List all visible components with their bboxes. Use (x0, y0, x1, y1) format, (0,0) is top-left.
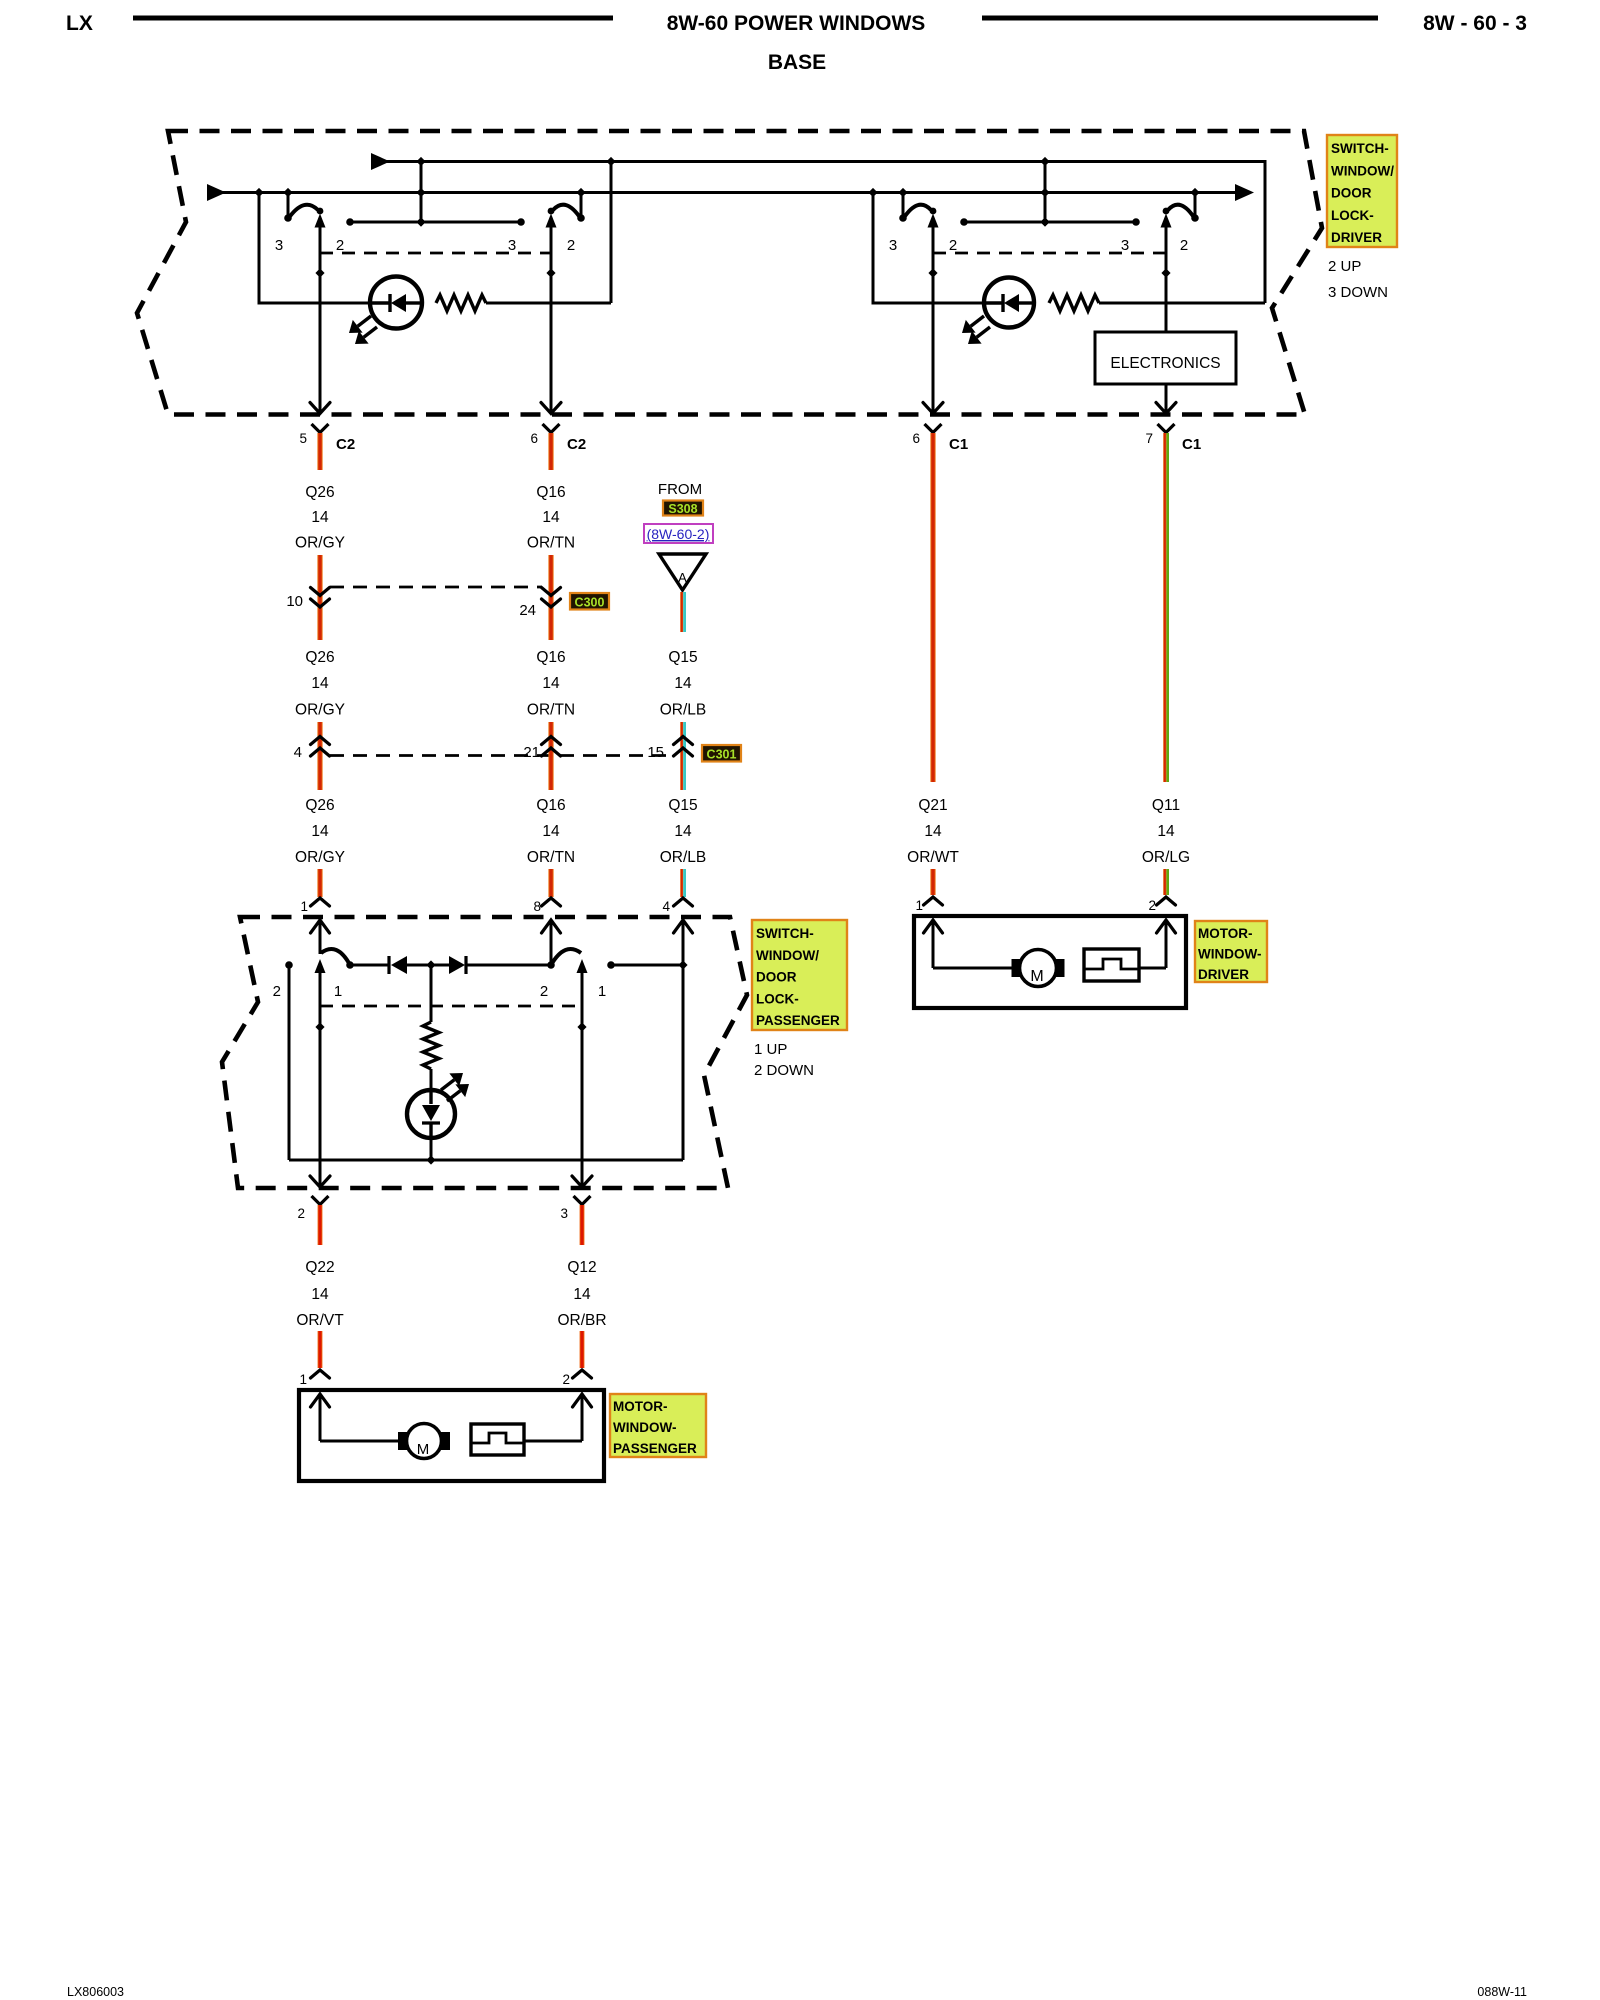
svg-text:A: A (678, 570, 687, 585)
svg-text:OR/TN: OR/TN (527, 535, 575, 552)
svg-text:3: 3 (560, 1206, 568, 1221)
mechanical link (dashed) left pair (320, 252, 551, 255)
pin 1 entry arrow (924, 920, 943, 933)
pin exit arrows at bottom of passenger switch box (310, 1176, 330, 1187)
svg-text:10: 10 (286, 593, 303, 610)
wire Q16 below C300 (548, 612, 553, 640)
svg-text:OR/LG: OR/LG (1142, 849, 1190, 866)
wire: blade down through box to pin 2 (319, 971, 322, 1186)
svg-text:LX806003: LX806003 (67, 1985, 124, 1999)
svg-text:Q26: Q26 (305, 484, 334, 501)
svg-text:3: 3 (508, 237, 516, 254)
motor M2 (passenger window) (407, 1424, 442, 1459)
svg-text:2 DOWN: 2 DOWN (754, 1062, 814, 1079)
component label: SWITCH-WINDOW/DOOR LOCK-DRIVER (1327, 135, 1397, 247)
svg-text:DOOR: DOOR (756, 970, 797, 985)
svg-text:2: 2 (562, 1372, 570, 1387)
wire Q21 into driver motor pin 1 (930, 869, 935, 895)
svg-text:14: 14 (311, 675, 329, 692)
diode D1 (points left) (387, 956, 390, 974)
svg-text:OR/LB: OR/LB (660, 702, 707, 719)
pin 8 entry arrow (542, 920, 561, 933)
svg-text:14: 14 (542, 509, 560, 526)
svg-text:WINDOW-: WINDOW- (613, 1420, 676, 1435)
svg-text:14: 14 (542, 675, 560, 692)
svg-text:M: M (417, 1441, 430, 1458)
svg-text:MOTOR-: MOTOR- (1198, 926, 1253, 941)
switch blade arc x=551 (553, 205, 581, 219)
svg-text:3: 3 (1121, 237, 1129, 254)
svg-text:14: 14 (674, 675, 692, 692)
switch pole: pivot stub x=1195 (1194, 193, 1197, 217)
component label: SWITCH-WINDOW/DOOR LOCK-PASSENGER (752, 920, 847, 1030)
wire Q15 into passenger switch pin 4 (680, 869, 683, 897)
wire Q15 through C301 (680, 722, 683, 790)
header rule left (133, 16, 613, 21)
ELECTRONICS block U1 (1095, 332, 1236, 384)
svg-text:24: 24 (519, 602, 536, 619)
connector label C300 (570, 593, 609, 610)
svg-text:1: 1 (300, 899, 308, 914)
wire Q15 from splice A (680, 592, 683, 632)
wire Q16 segment below C2-6 (548, 433, 553, 470)
pin 1 entry arrow and blade (311, 920, 330, 933)
svg-text:WINDOW/: WINDOW/ (1331, 163, 1394, 178)
svg-text:8: 8 (533, 899, 541, 914)
wire: resistor to x=611 vertical (486, 302, 611, 305)
svg-text:6: 6 (912, 431, 920, 446)
connector pin 3 (passenger switch) (574, 1196, 591, 1205)
mechanical link (dashed) passenger switch (320, 1005, 582, 1008)
svg-text:ELECTRONICS: ELECTRONICS (1110, 355, 1220, 372)
header rule right (982, 16, 1378, 21)
svg-text:2 UP: 2 UP (1328, 258, 1361, 275)
wire Q16 through C300 (548, 555, 553, 612)
svg-text:14: 14 (311, 1286, 329, 1303)
connector C1 pin 6 (925, 424, 942, 433)
wire contact 1 to diode D1 (350, 964, 388, 967)
LED emission arrows (447, 1091, 460, 1101)
switch pole: pivot stub x=903 (902, 193, 905, 217)
switch S3a blade arc (321, 949, 350, 965)
svg-text:2: 2 (297, 1206, 305, 1221)
in-line connector C301 (dashed mate line) (330, 754, 674, 757)
wire: vertical from upper bus down to lamp line (x=611) (610, 162, 613, 304)
wire LED to bottom bus (430, 1138, 433, 1160)
svg-text:088W-11: 088W-11 (1477, 1985, 1527, 1999)
svg-text:Q16: Q16 (536, 797, 565, 814)
svg-text:OR/GY: OR/GY (295, 849, 345, 866)
switch blade arrow x=1166 (1161, 214, 1172, 228)
switch blade arrow x=933 (928, 214, 939, 228)
splice symbol A (from S308) (659, 554, 706, 590)
wire: vertical tie upper bus to contact bar (right cell) (1044, 162, 1047, 223)
contact bar (right switch pair) (964, 221, 1136, 224)
resistor R3 (423, 1022, 439, 1069)
circuit breaker CB2 (471, 1424, 524, 1455)
LED emission arrows (971, 316, 984, 326)
wire: resistor to right corner vertical (1099, 302, 1265, 305)
in-line connector C300 (dashed mate line) (330, 586, 542, 589)
svg-text:8W - 60 - 3: 8W - 60 - 3 (1423, 12, 1527, 35)
wire Q22 into passenger motor pin 1 (318, 1331, 323, 1368)
pin 4 entry arrow and vertical (674, 920, 693, 933)
svg-text:2: 2 (1180, 237, 1188, 254)
wire: vertical tie upper bus to contact bar (left cell) (420, 162, 423, 223)
svg-text:BASE: BASE (768, 51, 826, 74)
svg-text:PASSENGER: PASSENGER (756, 1013, 840, 1028)
svg-text:DRIVER: DRIVER (1198, 967, 1249, 982)
svg-text:1 UP: 1 UP (754, 1041, 787, 1058)
svg-text:S308: S308 (668, 502, 697, 516)
wire to motor (933, 967, 1013, 970)
svg-text:LOCK-: LOCK- (756, 991, 799, 1006)
svg-text:LX: LX (66, 12, 93, 35)
junction node (diode/LED tap) (426, 960, 435, 969)
wire diode D2 to switch S3b pivot (466, 964, 551, 967)
connector label C301 (702, 745, 741, 762)
svg-text:Q26: Q26 (305, 649, 334, 666)
svg-text:M: M (1030, 968, 1043, 985)
C301 pin 4 chevrons (311, 737, 330, 745)
svg-text:14: 14 (1157, 823, 1175, 840)
svg-text:(8W-60-2): (8W-60-2) (647, 526, 710, 542)
svg-text:15: 15 (647, 744, 664, 761)
svg-text:C2: C2 (336, 436, 355, 453)
LED emission arrows (358, 316, 371, 326)
svg-text:2: 2 (1148, 898, 1156, 913)
svg-text:Q12: Q12 (567, 1259, 596, 1276)
svg-text:C300: C300 (575, 596, 605, 610)
wire Q22 below switch (318, 1205, 323, 1245)
switch S3b blade arc (551, 949, 581, 965)
svg-text:2: 2 (949, 237, 957, 254)
svg-text:2: 2 (567, 237, 575, 254)
svg-text:PASSENGER: PASSENGER (613, 1441, 697, 1456)
svg-text:SWITCH-: SWITCH- (1331, 141, 1389, 156)
C300 pin 10 chevrons (311, 588, 330, 596)
svg-text:Q16: Q16 (536, 649, 565, 666)
svg-text:OR/WT: OR/WT (907, 849, 959, 866)
wire Q12 below switch (580, 1205, 585, 1245)
wire: right drop to lamp line (x=873) (873, 193, 984, 304)
svg-text:Q26: Q26 (305, 797, 334, 814)
svg-text:DOOR: DOOR (1331, 186, 1372, 201)
svg-text:OR/TN: OR/TN (527, 849, 575, 866)
component label: MOTOR-WINDOW-PASSENGER (610, 1394, 706, 1457)
wire: blade vertical to pin 5 (319, 226, 322, 413)
wire: blade down through box to pin 3 (581, 971, 584, 1186)
resistor R2 (1049, 295, 1099, 311)
C300 pin 24 chevrons (542, 588, 561, 596)
connector pin 2 (passenger switch) (312, 1196, 329, 1205)
svg-text:C2: C2 (567, 436, 586, 453)
component box: MOTOR-WINDOW-PASSENGER (299, 1390, 604, 1481)
svg-text:1: 1 (334, 983, 342, 1000)
connector C1 pin 7 (1158, 424, 1175, 433)
LED lamp (driver switch illumination) (370, 277, 422, 329)
circuit breaker CB1 (1084, 949, 1139, 981)
wire Q16 into passenger switch pin 8 (548, 869, 553, 897)
wire: blade vertical to pin 6 (550, 226, 553, 413)
svg-text:Q15: Q15 (668, 797, 697, 814)
svg-text:1: 1 (598, 983, 606, 1000)
svg-text:5: 5 (299, 431, 307, 446)
svg-text:1: 1 (915, 898, 923, 913)
switch pole: pivot stub x=288 (287, 193, 290, 217)
junction dots below links (315, 268, 324, 277)
pin 2 entry arrow (1157, 920, 1176, 933)
component label: MOTOR-WINDOW-DRIVER (1195, 921, 1267, 982)
junction dots on lower bus (254, 188, 263, 197)
svg-text:C301: C301 (707, 748, 737, 762)
junction dots column x=1045 (1040, 157, 1049, 166)
LED lamp (right cell illumination) (984, 278, 1034, 328)
wire: blade vertical into electronics and to C1 pin 7 (1165, 226, 1168, 332)
svg-text:C1: C1 (1182, 436, 1201, 453)
resistor R1 (436, 295, 486, 311)
switch pole: pivot stub x=581 (580, 193, 583, 217)
wire Q11 segment below C1-7 (1163, 433, 1166, 782)
diode D2 (points right) (449, 956, 465, 974)
LED lamp (passenger switch illumination) (407, 1090, 455, 1138)
svg-text:OR/BR: OR/BR (557, 1312, 606, 1329)
switch blade arrow x=320 (315, 214, 326, 228)
wire Q26 through C300 (317, 555, 322, 612)
svg-text:14: 14 (311, 823, 329, 840)
svg-text:OR/VT: OR/VT (296, 1312, 344, 1329)
svg-text:3 DOWN: 3 DOWN (1328, 284, 1388, 301)
svg-text:Q15: Q15 (668, 649, 697, 666)
motor M1 (driver window) (1020, 950, 1057, 987)
svg-text:LOCK-: LOCK- (1331, 208, 1374, 223)
pin exit arrows at bottom of driver switch box (310, 403, 330, 414)
wire breaker to pin 2 (1139, 967, 1166, 970)
bottom bus of passenger switch (289, 1159, 683, 1162)
svg-text:WINDOW-: WINDOW- (1198, 947, 1261, 962)
contact 1 (right) (607, 961, 615, 969)
svg-text:Q22: Q22 (305, 1259, 334, 1276)
wire to motor (320, 1440, 399, 1443)
svg-text:14: 14 (542, 823, 560, 840)
wire: blade vertical to C1 pin 6 (932, 226, 935, 413)
svg-text:4: 4 (294, 744, 302, 761)
svg-text:C1: C1 (949, 436, 968, 453)
svg-text:3: 3 (275, 237, 283, 254)
wire to junction (407, 964, 449, 967)
wire Q12 into passenger motor pin 2 (580, 1331, 585, 1368)
svg-text:Q21: Q21 (918, 797, 947, 814)
wire: left drop to lamp line (x=259) (259, 193, 370, 304)
contact 2 (left) (285, 961, 293, 969)
wire Q26 into passenger switch pin 1 (317, 869, 322, 897)
pin 1 entry arrow (311, 1394, 330, 1407)
C301 pin 21 chevrons (542, 737, 561, 745)
svg-text:SWITCH-: SWITCH- (756, 926, 814, 941)
wire breaker to pin 2 (524, 1440, 582, 1443)
switch blade arc x=933 (903, 205, 931, 219)
wire Q11 into driver motor pin 2 (1163, 869, 1166, 895)
svg-text:7: 7 (1145, 431, 1153, 446)
wire Q26 segment below C2-5 (317, 433, 322, 470)
component box: MOTOR-WINDOW-DRIVER (914, 916, 1186, 1008)
svg-text:OR/TN: OR/TN (527, 702, 575, 719)
svg-text:2: 2 (273, 983, 281, 1000)
pin 2 entry arrow (573, 1394, 592, 1407)
svg-text:4: 4 (662, 899, 670, 914)
connector C2 pin 6 (543, 424, 560, 433)
junction dots below link (315, 1022, 324, 1031)
wire Q16 through C301 (548, 722, 553, 790)
connector C2 pin 5 (312, 424, 329, 433)
mechanical link (dashed) right pair (933, 252, 1166, 255)
svg-text:1: 1 (299, 1372, 307, 1387)
svg-text:OR/LB: OR/LB (660, 849, 707, 866)
svg-text:2: 2 (336, 237, 344, 254)
junction dots column x=421 (416, 157, 425, 166)
C301 pin 15 chevrons (674, 737, 693, 745)
wire: lower supply bus inside driver switch (207, 184, 226, 201)
svg-text:21: 21 (523, 744, 540, 761)
switch blade arc x=320 (288, 205, 318, 219)
svg-text:Q16: Q16 (536, 484, 565, 501)
svg-text:14: 14 (674, 823, 692, 840)
wire: upper supply bus inside driver switch (371, 153, 390, 170)
svg-text:3: 3 (889, 237, 897, 254)
svg-text:MOTOR-: MOTOR- (613, 1399, 668, 1414)
wire Q26 below C300 (317, 612, 322, 640)
svg-text:FROM: FROM (658, 481, 702, 498)
svg-text:WINDOW/: WINDOW/ (756, 948, 819, 963)
svg-text:Q11: Q11 (1152, 797, 1180, 814)
contact bar (left switch pair) (350, 221, 521, 224)
component outline: switch-window/door lock-passenger (dashed box) (222, 917, 747, 1188)
svg-text:OR/GY: OR/GY (295, 702, 345, 719)
switch blade arrow x=551 (546, 214, 557, 228)
svg-text:DRIVER: DRIVER (1331, 230, 1382, 245)
switch blade arc x=1166 (1168, 205, 1195, 219)
svg-text:14: 14 (311, 509, 329, 526)
component outline: switch-window/door lock-driver (dashed box) (137, 131, 1322, 415)
svg-text:14: 14 (924, 823, 942, 840)
svg-text:8W-60 POWER WINDOWS: 8W-60 POWER WINDOWS (667, 12, 926, 35)
svg-text:2: 2 (540, 983, 548, 1000)
svg-text:14: 14 (573, 1286, 591, 1303)
svg-text:6: 6 (530, 431, 538, 446)
wire Q26 through C301 (317, 722, 322, 790)
wire Q21 segment below C1-6 (930, 433, 935, 782)
svg-text:OR/GY: OR/GY (295, 535, 345, 552)
